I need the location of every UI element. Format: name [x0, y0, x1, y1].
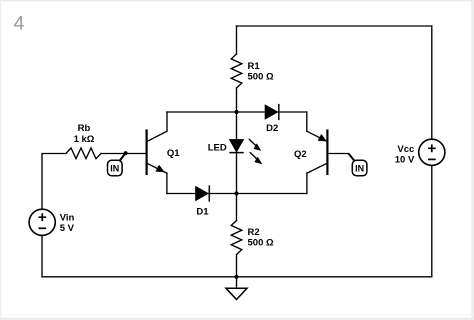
svg-text:D1: D1	[196, 207, 209, 218]
node IN (left input box)	[108, 160, 123, 176]
wire Q2 base tap	[328, 153, 349, 155]
svg-text:500 Ω: 500 Ω	[248, 72, 274, 83]
label R1 500 Ohm	[248, 61, 274, 83]
wire bridge top rail	[167, 111, 307, 113]
node top rail junction	[234, 110, 238, 114]
wire top rail	[237, 25, 432, 27]
label Rb 1 kOhm	[74, 123, 95, 145]
label R2 500 Ohm	[248, 227, 274, 249]
wire tap to IN box	[119, 153, 126, 162]
node IN tap junction	[124, 151, 128, 155]
svg-text:Vcc: Vcc	[397, 144, 414, 155]
wire top rail to R1	[236, 26, 238, 54]
transistor Q2	[307, 129, 328, 175]
node ground junction	[234, 275, 238, 279]
label Vin 5 V	[60, 212, 75, 234]
wire Q2 emitter to top bridge rail	[306, 112, 308, 131]
svg-text:IN: IN	[355, 164, 364, 174]
svg-text:Q1: Q1	[167, 148, 180, 159]
wire R2 to ground rail	[236, 255, 238, 277]
wire Q1 emitter to bottom bridge rail	[166, 173, 168, 193]
voltage source Vcc	[419, 139, 445, 165]
svg-text:1 kΩ: 1 kΩ	[74, 134, 95, 145]
node IN (right input box)	[352, 160, 367, 176]
wire Rb to Q1 base	[101, 153, 146, 155]
svg-text:500 Ω: 500 Ω	[248, 238, 274, 249]
svg-text:Vin: Vin	[60, 212, 75, 223]
svg-text:IN: IN	[110, 164, 119, 174]
wire Vcc to top rail	[431, 26, 433, 139]
wire Q1 collector to top bridge rail	[166, 112, 168, 131]
svg-text:R2: R2	[248, 227, 260, 238]
wire Vcc to bottom rail	[431, 166, 433, 277]
wire Vin top to Rb	[42, 154, 66, 210]
svg-text:4: 4	[14, 12, 25, 34]
svg-text:D2: D2	[266, 123, 278, 134]
LED	[229, 139, 262, 164]
svg-text:Q2: Q2	[294, 149, 307, 160]
svg-text:5 V: 5 V	[60, 223, 75, 234]
resistor R1	[231, 54, 242, 88]
svg-text:10 V: 10 V	[395, 154, 415, 165]
diode D1	[196, 185, 210, 201]
svg-text:Rb: Rb	[78, 123, 91, 134]
svg-text:LED: LED	[208, 142, 227, 153]
resistor Rb	[66, 148, 101, 159]
wire LED cathode to R2	[236, 153, 238, 221]
diode D2	[265, 104, 279, 120]
wire R1 to LED anode	[236, 88, 238, 140]
resistor R2	[231, 221, 242, 255]
label Vcc 10 V	[395, 144, 415, 166]
transistor Q1	[147, 129, 167, 175]
ground	[226, 277, 247, 300]
node bottom rail junction	[234, 191, 238, 195]
wire Q2 collector to bottom bridge rail	[306, 173, 308, 193]
wire tap to right IN box	[349, 154, 356, 162]
wire Vin bottom to bottom rail	[41, 236, 43, 277]
wire bottom rail	[42, 276, 432, 278]
svg-text:R1: R1	[248, 61, 261, 72]
wire bridge bottom rail	[167, 193, 307, 195]
voltage source Vin	[29, 209, 55, 235]
